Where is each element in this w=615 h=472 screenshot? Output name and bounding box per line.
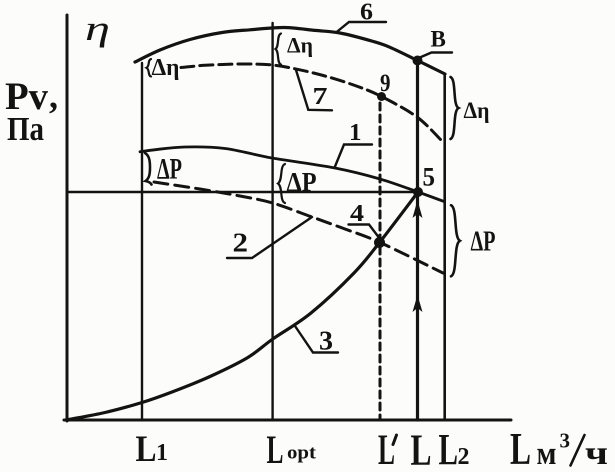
svg-text:3: 3: [319, 325, 333, 356]
svg-text:Δη: Δη: [152, 55, 180, 81]
svg-text:Δη: Δη: [464, 98, 490, 123]
svg-text:1: 1: [349, 120, 362, 146]
svg-text:9: 9: [380, 70, 391, 97]
svg-text:6: 6: [360, 0, 373, 26]
svg-text:L: L: [378, 427, 395, 472]
svg-text:1: 1: [156, 440, 168, 466]
svg-text:ΔP: ΔP: [157, 153, 182, 186]
svg-text:Δη: Δη: [287, 33, 313, 58]
svg-text:2: 2: [458, 444, 470, 470]
svg-text:,: ,: [49, 76, 58, 116]
svg-text:В: В: [431, 27, 446, 52]
svg-text:L: L: [439, 425, 459, 472]
svg-text:L: L: [136, 429, 157, 470]
svg-text:Па: Па: [7, 111, 44, 148]
svg-text:L: L: [510, 423, 531, 472]
svg-text:2: 2: [233, 226, 249, 257]
svg-text:7: 7: [313, 84, 328, 110]
svg-text:L: L: [267, 427, 284, 472]
svg-text:ч: ч: [585, 435, 608, 472]
svg-text:3: 3: [560, 429, 571, 453]
svg-text:ΔP: ΔP: [287, 166, 317, 197]
svg-text:м: м: [537, 436, 557, 472]
svg-text:η: η: [85, 10, 110, 48]
svg-text:4: 4: [350, 201, 364, 227]
svg-text:5: 5: [423, 162, 436, 192]
svg-text:L: L: [411, 426, 432, 472]
svg-text:opt: opt: [287, 443, 317, 464]
svg-text:ΔP: ΔP: [471, 227, 496, 258]
